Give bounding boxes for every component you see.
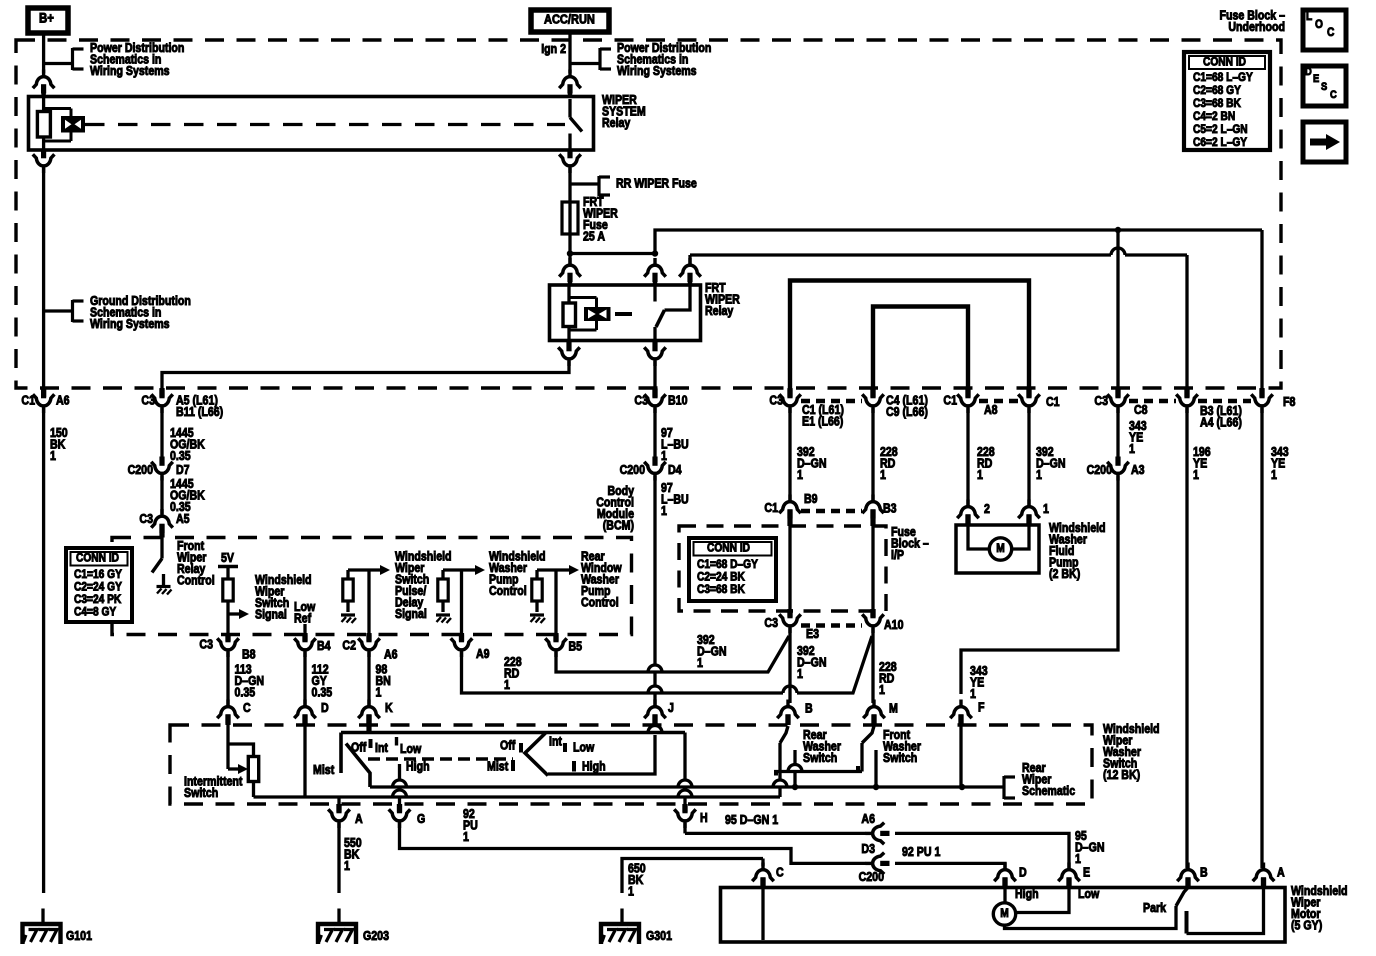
svg-text:Control: Control	[489, 584, 527, 598]
wire 97 L-BU lower (to J)	[653, 476, 656, 666]
svg-text:C6=2 L–GY: C6=2 L–GY	[1193, 136, 1248, 149]
wire hop J over A9 wire	[648, 686, 662, 693]
svg-text:C3: C3	[769, 394, 783, 408]
svg-text:A8: A8	[984, 403, 998, 417]
connector into FRT relay pin 2	[644, 258, 666, 282]
svg-text:(2 BK): (2 BK)	[1049, 567, 1080, 581]
connector A	[328, 804, 350, 828]
svg-text:C3: C3	[764, 616, 778, 630]
svg-text:5V: 5V	[221, 551, 234, 565]
connector J	[644, 700, 666, 724]
svg-text:D4: D4	[668, 463, 682, 477]
connector C3-B8	[217, 633, 239, 657]
tick Off 2	[519, 743, 523, 753]
svg-text:B+: B+	[39, 11, 54, 26]
connector D	[294, 700, 316, 724]
svg-text:C8: C8	[1134, 403, 1148, 417]
relay switch blade	[570, 118, 582, 132]
wire 150 BK 1	[42, 408, 45, 893]
hop J wire over rail	[648, 726, 662, 733]
wire rail to H	[683, 733, 686, 781]
connector pump pin 1	[1018, 500, 1040, 524]
connector H	[674, 804, 696, 828]
svg-text:G: G	[417, 812, 425, 826]
connector C200-A3	[1107, 457, 1129, 481]
wire line B	[254, 795, 781, 798]
svg-text:C1: C1	[764, 501, 778, 515]
fuse block I/P dashed box	[679, 526, 886, 611]
wire loop 392 D-GN (C1/E1 to C1)	[790, 281, 1029, 390]
svg-text:1: 1	[1075, 852, 1081, 866]
svg-text:(12 BK): (12 BK)	[1103, 768, 1140, 782]
svg-text:Wiring Systems: Wiring Systems	[90, 317, 170, 331]
wire 228 RD to B3	[871, 408, 874, 500]
wire 1445 OG/BK upper	[160, 408, 163, 460]
arrow windshield wiper switch signal	[239, 609, 249, 619]
washer pump control group	[443, 568, 476, 571]
motor M	[993, 903, 1015, 925]
wire branch to power distribution	[44, 62, 73, 65]
arrow button box	[1303, 122, 1346, 162]
connector C3-C8	[1107, 389, 1129, 413]
connector motor E	[1058, 863, 1080, 887]
svg-text:Switch: Switch	[184, 786, 218, 800]
connector below relay right	[559, 149, 581, 173]
svg-text:High: High	[406, 760, 430, 774]
svg-text:1: 1	[1129, 442, 1135, 456]
wire H3 from FRT relay pin 3	[690, 253, 1111, 256]
reference bracket power distribution (right)	[598, 48, 601, 70]
wire branch down to C3-C8	[1115, 227, 1121, 233]
svg-text:2: 2	[984, 502, 990, 516]
wire 92 PU to D	[895, 863, 1005, 868]
svg-text:Wiring Systems: Wiring Systems	[90, 64, 170, 78]
relay K2 FRT WIPER Relay box	[550, 285, 701, 341]
svg-text:1: 1	[1043, 502, 1049, 516]
svg-text:O: O	[1315, 18, 1323, 31]
svg-text:C3: C3	[139, 512, 153, 526]
wire into relay	[41, 85, 46, 97]
connector pair dashed links	[801, 399, 862, 403]
arrow washer pump control	[475, 565, 485, 575]
svg-text:Control: Control	[177, 574, 215, 588]
svg-text:1: 1	[879, 683, 885, 697]
ground (BCM internal)	[157, 585, 171, 588]
wire 1445 OG/BK lower	[160, 476, 163, 515]
CONN ID table (fuse block I/P)	[689, 538, 776, 601]
connector C4/C9	[862, 389, 884, 413]
svg-text:95 D–GN 1: 95 D–GN 1	[725, 813, 779, 827]
svg-text:C4=2 BN: C4=2 BN	[1193, 110, 1235, 123]
svg-text:C2=24 GY: C2=24 GY	[74, 581, 122, 594]
front wiper relay control switch	[160, 538, 163, 559]
B+ power terminal box	[28, 8, 68, 33]
svg-text:CONN ID: CONN ID	[1203, 56, 1246, 69]
svg-text:C200: C200	[128, 463, 153, 477]
front washer switch blade curve	[862, 726, 874, 743]
connector A6 inline	[866, 823, 890, 845]
svg-text:(5 GY): (5 GY)	[1291, 919, 1322, 933]
svg-text:1: 1	[977, 468, 983, 482]
connector into FRT relay pin 1	[559, 258, 581, 282]
ACC/RUN power terminal box	[531, 10, 609, 32]
svg-text:S: S	[1321, 81, 1327, 93]
relay internal dashed link 2	[615, 312, 643, 316]
svg-text:C2: C2	[342, 639, 356, 653]
wire 550 BK to G203	[337, 823, 340, 893]
svg-text:C3=68 BK: C3=68 BK	[697, 583, 745, 596]
svg-text:A: A	[1277, 866, 1285, 880]
svg-text:G301: G301	[646, 929, 672, 943]
motor internal: common to park switch	[1005, 906, 1177, 929]
connector link B9-B3	[801, 509, 862, 513]
svg-text:Control: Control	[581, 596, 619, 610]
svg-text:Ign 2: Ign 2	[541, 42, 566, 56]
connector into FRT relay pin 3	[679, 258, 701, 282]
park switch blade	[1176, 888, 1188, 907]
wire 95 D-GN to E	[895, 833, 1069, 868]
svg-text:M: M	[1000, 907, 1009, 920]
connector C3-B10	[644, 389, 666, 413]
svg-text:CONN ID: CONN ID	[76, 552, 119, 565]
svg-text:E1 (L66): E1 (L66)	[802, 415, 843, 429]
svg-text:1: 1	[376, 686, 382, 700]
svg-text:C3: C3	[141, 394, 155, 408]
motor internal: D high	[1003, 888, 1006, 904]
svg-text:M: M	[996, 542, 1005, 555]
arrow rear window washer pump control	[569, 565, 579, 575]
rear wiper schematic bracket	[1002, 776, 1005, 799]
connector A10	[862, 609, 884, 633]
connector C1-A8	[957, 389, 979, 413]
connector motor B	[1177, 863, 1199, 887]
hop contact over line C2	[788, 765, 802, 772]
svg-text:G101: G101	[66, 929, 92, 943]
relay switch (wiper system relay)	[568, 99, 571, 118]
wire branch to power distribution right	[570, 62, 600, 65]
svg-text:B5: B5	[569, 640, 583, 654]
svg-text:Mist: Mist	[487, 760, 508, 774]
svg-text:C200: C200	[1087, 463, 1112, 477]
hop H wire over line A	[678, 780, 692, 787]
svg-text:1: 1	[463, 830, 469, 844]
connector C3-A5/B11	[151, 389, 173, 413]
rear wiper switch blade	[525, 733, 548, 776]
connector C200-D4	[644, 457, 666, 481]
svg-text:E3: E3	[806, 627, 819, 641]
tick Int 2	[563, 743, 567, 752]
tick rear washer	[774, 770, 778, 776]
svg-text:C: C	[776, 866, 784, 880]
junction H2/H1	[652, 250, 658, 256]
wire relay pin down (left)	[41, 150, 46, 157]
wire hop J over B5 wire	[648, 665, 662, 672]
svg-text:1: 1	[970, 687, 976, 701]
wire switch contact to pin 3	[665, 285, 691, 310]
tick front washer	[856, 766, 860, 772]
rear washer switch blade curve	[780, 726, 788, 743]
svg-text:C3=24 PK: C3=24 PK	[74, 593, 121, 606]
svg-text:B: B	[805, 702, 813, 716]
junction fuse output	[567, 250, 573, 256]
wire 343 YE to A3	[1116, 408, 1119, 460]
svg-text:L: L	[1306, 10, 1312, 23]
connector C3-A5	[151, 509, 173, 533]
svg-text:ACC/RUN: ACC/RUN	[544, 12, 595, 27]
wire relay pin down (right)	[568, 150, 573, 157]
fuse block bottom edge connector stubs	[41, 388, 46, 397]
hop H wire over line B	[678, 790, 692, 797]
connector F	[950, 700, 972, 724]
ground G101	[23, 924, 61, 944]
wire line C (J to rear blade)	[548, 735, 655, 774]
svg-text:F8: F8	[1283, 395, 1296, 409]
windshield wiper motor box	[721, 888, 1286, 943]
connector FRT relay pin 4	[558, 342, 580, 366]
wire line C2	[774, 770, 862, 773]
connector C3-C1/E1	[779, 389, 801, 413]
connector F8	[1251, 389, 1273, 413]
svg-text:High: High	[582, 760, 606, 774]
wire 112 GY	[303, 652, 306, 705]
resistor pulse delay	[343, 579, 353, 601]
svg-text:D7: D7	[176, 463, 190, 477]
connector pump pin 2	[957, 500, 979, 524]
relay clamp diode (wiper system relay)	[44, 107, 71, 110]
svg-text:Underhood: Underhood	[1228, 20, 1285, 34]
relay clamp diode (FRT wiper relay)	[569, 296, 597, 299]
wire branch to ground distribution	[44, 309, 73, 312]
hop G wire over line A	[393, 780, 407, 787]
relay coil (FRT wiper relay)	[567, 285, 570, 303]
wire diagonal up to E3	[556, 636, 789, 672]
svg-text:C1: C1	[21, 394, 35, 408]
dashed mist link wire	[368, 757, 513, 760]
svg-text:F: F	[978, 701, 984, 715]
svg-text:0.35: 0.35	[170, 449, 191, 463]
wire 392 D-GN to B9	[788, 408, 791, 500]
ground G203	[318, 924, 356, 944]
fuse FRT WIPER 25A	[562, 202, 578, 234]
svg-text:C2=68 GY: C2=68 GY	[1193, 84, 1241, 97]
DESC button box	[1303, 66, 1346, 106]
wire low-ref D into box	[303, 725, 306, 797]
connector B	[777, 700, 799, 724]
wire 228 RD to pump 2	[966, 408, 969, 505]
svg-text:Relay: Relay	[705, 304, 734, 318]
body control module dashed box	[112, 538, 632, 635]
rear window washer pump control group	[537, 568, 570, 571]
switch blade front wiper relay control	[152, 559, 162, 573]
svg-text:High: High	[1015, 887, 1039, 901]
svg-text:G203: G203	[363, 929, 389, 943]
svg-text:Signal: Signal	[395, 607, 427, 621]
wire loop 228 RD (C4/C9 to A8)	[873, 307, 968, 390]
FRT relay switch blade	[656, 310, 665, 327]
svg-text:D: D	[1305, 66, 1312, 78]
wiper switch pulse/delay signal group	[348, 568, 381, 571]
svg-text:A6: A6	[861, 812, 875, 826]
switch ticks Off/Int (front wiper switch)	[369, 739, 373, 748]
wire fuse output to FRT relay pin	[568, 254, 571, 265]
svg-text:Relay: Relay	[602, 116, 631, 130]
svg-text:Low: Low	[573, 741, 595, 755]
svg-text:C1: C1	[943, 394, 957, 408]
connector C200-D7	[151, 457, 173, 481]
svg-text:C: C	[1330, 89, 1337, 101]
svg-text:A4 (L66): A4 (L66)	[1200, 416, 1242, 430]
connector link E3-A10	[801, 623, 862, 627]
svg-text:C: C	[1327, 26, 1334, 39]
relay switch (FRT wiper relay)	[653, 285, 656, 302]
connector C1 (pump)	[1018, 389, 1040, 413]
connector B5	[545, 633, 567, 657]
reference bracket RR WIPER fuse	[597, 176, 600, 196]
svg-text:C1=16 GY: C1=16 GY	[74, 568, 122, 581]
svg-text:C200: C200	[859, 870, 884, 884]
hop G wire over line B	[393, 790, 407, 797]
svg-text:Int: Int	[549, 735, 562, 749]
wire 343 YE below A3 to F	[961, 476, 1118, 695]
svg-text:B9: B9	[804, 492, 818, 506]
connector C1-A6	[33, 389, 55, 413]
wire FRT relay to A5 connector	[162, 361, 569, 389]
motor internal: C ground lead	[761, 888, 764, 941]
svg-text:A6: A6	[56, 394, 70, 408]
wire 150 BK to C1-A6	[42, 168, 45, 389]
svg-text:C3: C3	[634, 394, 648, 408]
svg-text:Off: Off	[500, 739, 515, 753]
svg-text:D: D	[321, 701, 329, 715]
svg-text:Int: Int	[375, 741, 388, 755]
svg-text:A5: A5	[176, 512, 190, 526]
front wiper switch rail	[341, 731, 685, 735]
wire 97 L-BU upper	[653, 408, 656, 460]
connector motor A	[1253, 863, 1275, 887]
svg-text:C200: C200	[620, 463, 645, 477]
wire F down to line A	[959, 725, 962, 787]
front wiper switch blade	[346, 744, 370, 788]
wire 196 YE	[1185, 408, 1188, 868]
wire ACC/RUN down	[568, 32, 571, 73]
wire line A (blade common)	[370, 785, 1003, 788]
wire diagonal up to A10	[797, 636, 872, 693]
svg-text:Low: Low	[1078, 887, 1100, 901]
svg-text:A10: A10	[884, 618, 903, 632]
CONN ID table (fuse block underhood)	[1184, 52, 1270, 150]
svg-text:J: J	[668, 701, 674, 715]
svg-text:Signal: Signal	[255, 608, 287, 622]
connector K	[358, 700, 380, 724]
svg-text:C: C	[243, 701, 251, 715]
wire A stub to line B	[337, 797, 340, 804]
relay internal dashed link	[85, 123, 565, 126]
svg-text:1: 1	[797, 667, 803, 681]
park contact and A wiring	[1185, 911, 1189, 934]
svg-text:B11 (L66): B11 (L66)	[176, 405, 223, 419]
connector FRT relay pin 5	[644, 342, 666, 366]
svg-text:1: 1	[628, 885, 634, 899]
front washer contact wire	[874, 750, 877, 787]
svg-text:C9 (L66): C9 (L66)	[886, 405, 928, 419]
wire B+ down	[42, 33, 45, 73]
tick High 2	[572, 761, 576, 772]
fuse block underhood dashed border	[16, 40, 1281, 388]
svg-text:H: H	[700, 811, 708, 825]
svg-text:(BCM): (BCM)	[603, 519, 634, 533]
hop rear washer wire over line A	[773, 780, 787, 787]
svg-text:Park: Park	[1143, 901, 1167, 915]
intermittent variable resistor	[248, 757, 258, 782]
rear washer contact wire	[793, 750, 796, 764]
connector B+ to relay	[33, 70, 55, 94]
svg-text:Ref: Ref	[294, 612, 311, 626]
relay K1 WIPER SYSTEM Relay box	[29, 97, 594, 151]
windshield wiper washer switch dashed box	[170, 725, 1092, 804]
wire C to G301	[761, 859, 764, 867]
svg-text:B3: B3	[883, 502, 897, 516]
svg-text:1: 1	[880, 468, 886, 482]
svg-text:C3: C3	[1094, 394, 1108, 408]
svg-text:E: E	[1313, 73, 1319, 85]
resistor rear window washer	[532, 579, 542, 601]
connector below relay left	[33, 149, 55, 173]
windshield washer fluid pump box	[956, 525, 1039, 573]
wire FRT relay to B10	[653, 361, 656, 389]
svg-text:A9: A9	[476, 647, 490, 661]
svg-text:A6: A6	[384, 648, 398, 662]
svg-text:E: E	[1083, 866, 1090, 880]
arrow pulse delay signal	[380, 565, 390, 575]
pump motor M	[989, 538, 1011, 560]
svg-text:C5=2 L–GN: C5=2 L–GN	[1193, 123, 1248, 136]
wire H to A6 inline	[683, 823, 686, 833]
svg-text:RR WIPER Fuse: RR WIPER Fuse	[616, 177, 697, 191]
svg-text:C3: C3	[199, 638, 213, 652]
wire branch to RR WIPER fuse	[570, 182, 599, 185]
connector M	[863, 700, 885, 724]
wire 228 RD from A9	[462, 652, 784, 693]
svg-text:Schematic: Schematic	[1022, 784, 1076, 798]
svg-text:A: A	[355, 812, 363, 826]
connector C3-E3	[779, 609, 801, 633]
wire 98 BN	[367, 652, 370, 705]
CONN ID table (BCM)	[66, 548, 132, 622]
svg-text:1: 1	[797, 468, 803, 482]
wire 228 RD A10 to M	[871, 628, 874, 703]
wire 113 D-GN	[226, 652, 229, 705]
mist contact line	[339, 733, 343, 774]
svg-text:25 A: 25 A	[583, 230, 606, 244]
wire down to F8 connector	[1260, 230, 1263, 389]
svg-text:1: 1	[50, 449, 56, 463]
FRT relay bottom pins	[567, 341, 572, 351]
ground G301	[601, 924, 639, 944]
wires through I/P block	[788, 526, 791, 617]
svg-text:0.35: 0.35	[312, 686, 333, 700]
pump motor wiring	[968, 525, 990, 549]
svg-text:C3=68 BK: C3=68 BK	[1193, 97, 1241, 110]
svg-text:M: M	[889, 702, 898, 716]
reference bracket power distribution (left)	[71, 48, 74, 70]
svg-text:Mist: Mist	[313, 763, 334, 777]
svg-text:1: 1	[1036, 468, 1042, 482]
svg-text:Wiring Systems: Wiring Systems	[617, 64, 697, 78]
svg-text:A3: A3	[1131, 463, 1145, 477]
svg-text:C4=8 GY: C4=8 GY	[74, 606, 117, 619]
ground (BCM internal 4)	[530, 613, 544, 616]
connector B3	[862, 495, 884, 519]
